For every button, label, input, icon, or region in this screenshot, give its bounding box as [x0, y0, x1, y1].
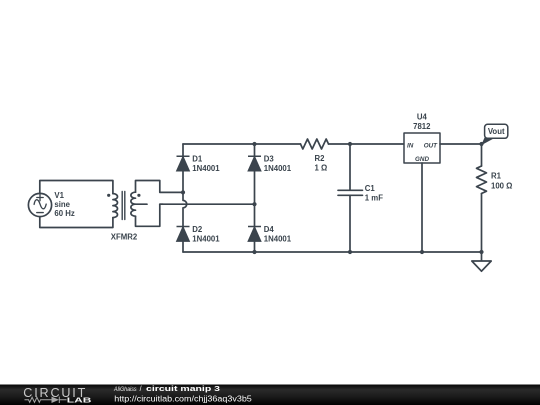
Vout flag pointer [481, 137, 495, 145]
diode D2 [177, 227, 190, 242]
wire V1 loop bottom [40, 217, 113, 228]
svg-text:1N4001: 1N4001 [264, 235, 292, 244]
node dot Vout [479, 142, 483, 146]
svg-text:7812: 7812 [413, 122, 431, 131]
svg-text:1 Ω: 1 Ω [315, 164, 328, 173]
svg-text:60 Hz: 60 Hz [54, 209, 74, 218]
diode D4 [248, 227, 261, 242]
svg-text:1N4001: 1N4001 [192, 164, 220, 173]
transformer XFMR2 primary coil [113, 194, 118, 218]
diode D3 [248, 156, 261, 171]
svg-text:U4: U4 [417, 113, 428, 122]
wire C1 branch top [349, 144, 351, 190]
svg-text:/: / [140, 386, 142, 393]
wire secondary bottom terminal [136, 204, 164, 226]
transformer secondary polarity dot [137, 194, 140, 197]
resistor R1 [477, 166, 487, 193]
node dot right branch secondary bottom [252, 202, 256, 206]
capacitor C1 [338, 190, 363, 195]
svg-text:1N4001: 1N4001 [192, 235, 220, 244]
node dot bottom rail at D4 [252, 250, 256, 254]
svg-text:D3: D3 [264, 154, 275, 163]
node dot top rail at C1 [348, 142, 352, 146]
svg-text:circuit manip 3: circuit manip 3 [146, 384, 220, 393]
wire C1 branch bottom [349, 195, 351, 252]
node dot left branch secondary top [181, 190, 185, 194]
node dot bottom rail at C1 [348, 250, 352, 254]
node dot bottom rail at ground [479, 250, 483, 254]
svg-text:R2: R2 [315, 154, 326, 163]
wire bottom rail [183, 251, 482, 253]
svg-text:sine: sine [54, 200, 70, 209]
Vout flag balloon [485, 124, 508, 138]
svg-text:1 mF: 1 mF [365, 194, 383, 203]
voltage regulator U4 7812 box [404, 133, 440, 163]
svg-text:XFMR2: XFMR2 [111, 232, 138, 241]
svg-text:100 Ω: 100 Ω [491, 181, 512, 190]
svg-text:Vout: Vout [488, 127, 505, 136]
svg-text:IN: IN [407, 142, 414, 149]
svg-text:V1: V1 [54, 191, 64, 200]
wire secondary center tap stub [136, 203, 148, 205]
svg-text:R1: R1 [491, 172, 502, 181]
resistor R2 [301, 139, 329, 149]
wire V1 loop top [40, 181, 113, 195]
wire Vout node to R1 [481, 144, 483, 166]
logo wire with resistor and diode [25, 397, 67, 403]
wire R2 to U4 [329, 143, 405, 145]
wire bridge left branch with hop [183, 144, 187, 252]
svg-text:LAB: LAB [67, 396, 92, 405]
wire R1 to bottom rail [481, 194, 483, 253]
svg-text:C1: C1 [365, 184, 376, 193]
ground [472, 261, 491, 271]
svg-text:AliGhaiss: AliGhaiss [113, 386, 137, 393]
wire ground stub [481, 252, 483, 261]
svg-text:GND: GND [415, 156, 429, 163]
wire U4 OUT to Vout node [440, 143, 482, 145]
diode D1 [177, 156, 190, 171]
svg-text:OUT: OUT [424, 142, 438, 149]
wire bridge right branch [254, 144, 256, 252]
transformer core [122, 192, 125, 220]
wire U4 GND pin [421, 163, 423, 252]
svg-text:http://circuitlab.com/chjj36aq: http://circuitlab.com/chjj36aq3v3b5 [114, 395, 252, 404]
transformer XFMR2 secondary coil [131, 192, 136, 216]
wire top rail bridge to R2 [183, 143, 301, 145]
transformer primary polarity dot [107, 194, 110, 197]
svg-text:D4: D4 [264, 225, 275, 234]
node dot top rail at D3 branch [252, 142, 256, 146]
wire secondary top terminal [136, 181, 184, 193]
svg-text:1N4001: 1N4001 [264, 164, 292, 173]
node dot bottom rail at U4 GND [420, 250, 424, 254]
voltage source V1 [28, 193, 51, 216]
svg-text:D2: D2 [192, 225, 203, 234]
svg-text:D1: D1 [192, 154, 203, 163]
wire secondary to right bridge branch [160, 203, 255, 205]
